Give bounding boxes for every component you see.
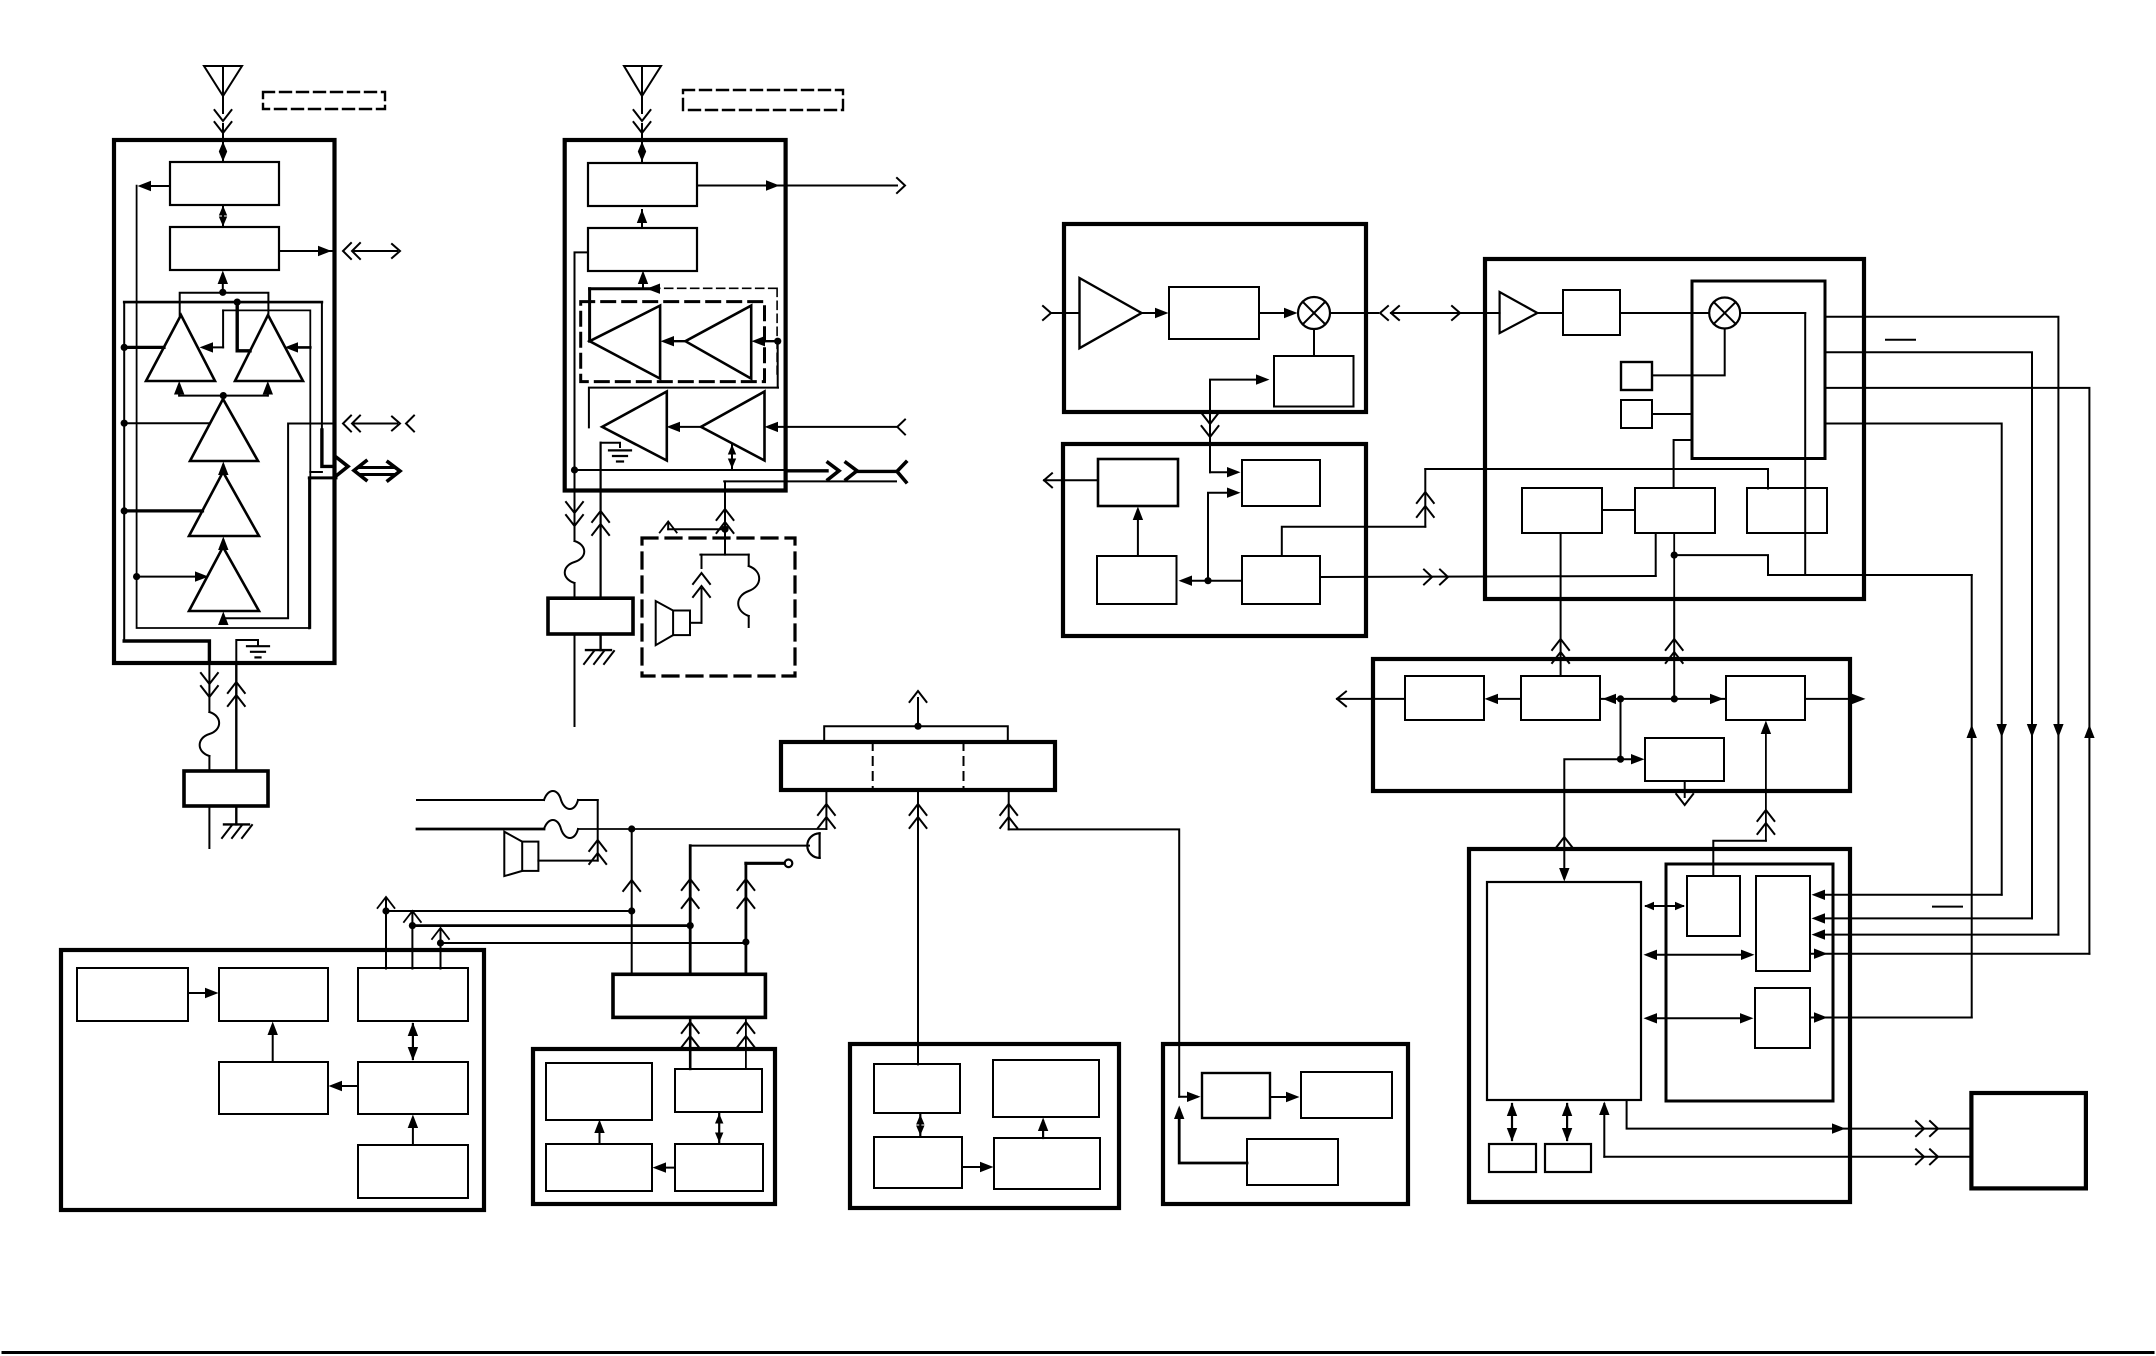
arrow N3 to N4	[962, 1162, 994, 1172]
bidirectional arrow antenna to filter	[219, 142, 227, 162]
block D2c	[1521, 676, 1600, 720]
amplifier Q5	[189, 547, 259, 611]
arrows into L2 from bus	[1812, 890, 2059, 940]
board riser 3 to control box	[1000, 790, 1179, 1097]
dashed speaker enclosure	[642, 538, 795, 676]
bus arrow V5 up	[2084, 725, 2094, 739]
detector out 2	[1825, 352, 2032, 918]
board riser 1	[818, 790, 835, 829]
D4c ground stub	[1676, 781, 1693, 805]
block G1	[1563, 290, 1620, 335]
amplifier U1	[1080, 278, 1142, 348]
block O1	[1202, 1073, 1270, 1118]
stub connector left of node	[660, 522, 725, 533]
block M4	[675, 1144, 763, 1191]
arrow R6 to R5	[408, 1115, 418, 1146]
display unit box	[61, 950, 484, 1210]
ground symbol in RF unit	[236, 640, 269, 661]
bus tap to Q1	[121, 344, 164, 351]
crystal block X1	[1621, 362, 1652, 390]
arrow M4 to M3	[653, 1162, 676, 1172]
modulation unit box	[1063, 444, 1366, 636]
wire J1i to J2i	[1602, 509, 1635, 511]
block R1	[77, 968, 188, 1021]
antenna matching box (second)	[548, 598, 633, 634]
block M2	[675, 1069, 762, 1112]
speaker SP2	[504, 832, 538, 876]
control line 4	[441, 942, 746, 944]
wire Q5 drive from connector J2	[223, 424, 334, 619]
arrow L3 out to bus V1	[1810, 1012, 1972, 1022]
connector J1 chevrons	[343, 243, 400, 259]
option unit box	[1971, 1093, 2085, 1188]
wire mixer out to IF unit	[1330, 306, 1500, 320]
antenna ANT1	[204, 66, 242, 113]
block C1m	[1098, 459, 1178, 506]
feed wire into F1	[1202, 374, 1270, 477]
tick mark 2	[1933, 906, 1962, 908]
block N1	[874, 1064, 960, 1113]
data line to option box upper	[1627, 1100, 1972, 1136]
block M3	[546, 1144, 652, 1191]
amplifier Q2	[235, 315, 303, 381]
block D1c	[1405, 676, 1484, 720]
speaker branch riser	[717, 481, 734, 533]
arrow D2 to D1	[661, 336, 686, 346]
arrow R4 to R2	[268, 1022, 278, 1063]
jack riser A	[682, 846, 699, 975]
connector chevrons on ANT2 feed	[634, 110, 651, 140]
wire mixer to osc block	[1313, 329, 1315, 356]
antenna feed below second unit	[565, 470, 585, 598]
block M1	[546, 1063, 652, 1120]
speaker SP1	[656, 601, 690, 645]
block N4	[994, 1138, 1100, 1189]
block O3	[1247, 1139, 1338, 1185]
control line thick	[412, 924, 690, 927]
block R2	[219, 968, 328, 1021]
bus tap to Q3	[121, 420, 210, 427]
antenna feed line below RF unit	[200, 663, 220, 771]
jack board riser down B	[737, 1017, 754, 1069]
bus arrow V4 down	[2053, 724, 2063, 738]
audio line to speaker unit	[724, 480, 896, 482]
arrow bus into O1	[1179, 1092, 1200, 1102]
coax connector second unit	[786, 462, 906, 482]
board top cap wire	[824, 691, 1008, 742]
TX IF unit box	[1064, 224, 1366, 412]
mic line 2 with cord	[417, 820, 826, 838]
block P2	[1545, 1144, 1591, 1172]
arrow up into C2	[590, 271, 660, 294]
CPU block K	[1487, 882, 1641, 1100]
board dashed dividers	[873, 742, 964, 790]
wire C4m out to main IC	[1320, 533, 1656, 585]
wire below matching box	[208, 806, 210, 848]
detector out 4	[1825, 424, 2002, 895]
speaker tee wiring	[700, 529, 748, 554]
outer dashed enclosure	[652, 288, 777, 374]
wire C4m top to control loop	[1282, 527, 1426, 556]
output wire A2 to connector J1	[279, 246, 334, 256]
block F1 (osc)	[1274, 356, 1354, 407]
arrow R5 to R4	[329, 1081, 359, 1091]
wire C4m to C3m with tap	[1179, 488, 1243, 586]
block J1i	[1522, 488, 1602, 533]
earphone jack	[690, 833, 819, 858]
block R4	[219, 1062, 328, 1114]
osc sub box L	[1666, 864, 1833, 1101]
interstage node Q3 to Q1/Q2	[174, 381, 273, 399]
board riser 2 (center)	[910, 790, 927, 1064]
ground symbol in second unit	[601, 443, 631, 462]
amplifier Q3	[190, 399, 258, 461]
bus tap to Q4	[121, 507, 203, 514]
arrow D1c out left	[1337, 692, 1405, 707]
bus arrow V2 down	[1997, 724, 2007, 738]
input connector into TX IF	[1043, 306, 1080, 320]
amplifier D2	[685, 306, 751, 379]
filter block C1	[588, 163, 697, 206]
IC riser to ctrl 1	[1552, 533, 1569, 676]
control line 3	[386, 910, 632, 912]
arrow A1 to left bus	[138, 181, 171, 191]
reference unit box	[1163, 1044, 1408, 1204]
PLL unit box	[850, 1044, 1119, 1208]
squelch return bus	[1971, 575, 1973, 1018]
arrow N4 to N2	[1038, 1118, 1048, 1139]
wire below matching box second	[574, 634, 576, 726]
drive arrow into Q1	[200, 310, 224, 352]
arrow Q4 to Q3	[218, 462, 228, 476]
block E1	[1169, 287, 1259, 339]
arrow up C2 to C1	[637, 210, 647, 229]
inner frame second unit	[589, 388, 778, 428]
speaker SP2 wire	[538, 840, 606, 864]
node feed into D2	[752, 336, 782, 388]
tick mark 1	[1886, 339, 1915, 341]
jack riser B	[737, 863, 754, 974]
node below J2i	[1671, 533, 1768, 599]
block D4c	[1645, 738, 1724, 781]
detector sub box	[1692, 281, 1825, 459]
thick elbow to D1 tip	[588, 289, 591, 342]
feedback loop to PA apexes	[180, 293, 269, 316]
connector chevrons on ANT1 feed	[215, 110, 232, 140]
filter block A1	[170, 162, 279, 205]
audio riser from mic line	[623, 829, 640, 974]
detector out 1	[1825, 317, 2058, 935]
output wire C1 to right	[697, 178, 905, 193]
control unit box	[1373, 659, 1850, 791]
wire X1 to detector	[1652, 329, 1725, 376]
chassis ground (left)	[222, 806, 252, 838]
RF unit box (left outer)	[114, 140, 335, 663]
output connector left of mod unit	[1044, 473, 1098, 487]
jack board box	[613, 974, 765, 1017]
drive arrow into Q2	[285, 342, 311, 352]
block P1	[1489, 1144, 1536, 1172]
bidirectional arrow ANT2 to C1	[638, 142, 646, 162]
block L2	[1756, 876, 1810, 971]
bidirectional arrow N1-N3	[916, 1115, 924, 1136]
connector J2 chevrons	[343, 416, 414, 432]
block C2m	[1242, 460, 1320, 506]
TX bus wire	[571, 466, 786, 473]
wire up into K bottom	[1599, 1102, 1609, 1157]
arrow D3c out right	[1805, 694, 1866, 704]
block N2	[993, 1060, 1099, 1117]
IC riser to ctrl 2	[1666, 599, 1683, 699]
speaker SP1 wire with connector	[690, 555, 710, 623]
bidirectional arrow A1-A2	[219, 206, 227, 227]
detector out 3	[1825, 388, 2089, 954]
ground return line below RF unit	[228, 663, 245, 771]
mixer MX1	[1298, 297, 1330, 329]
bidirectional arrow K-P2	[1562, 1103, 1572, 1142]
bus tap arrow to Q5	[133, 571, 209, 581]
block C4m	[1242, 556, 1320, 604]
mic jack	[746, 860, 792, 868]
tap wire into D4c	[1617, 699, 1645, 765]
bidirectional arrow D4 to bus	[728, 445, 736, 469]
block R3	[358, 968, 468, 1021]
inner dashed enclosure	[581, 302, 765, 382]
feedback O3 to node	[1174, 1106, 1247, 1164]
bidirectional arrow K-L1	[1644, 902, 1685, 910]
block N3	[874, 1137, 962, 1188]
control riser V3	[432, 928, 449, 969]
dashed label box (left)	[263, 92, 385, 109]
pickup coil in speaker box	[738, 555, 759, 627]
ground drop to matching (second)	[592, 443, 609, 599]
amplifier D1	[590, 306, 661, 379]
RF unit feed elbow	[124, 641, 209, 663]
amplifier D3	[602, 392, 667, 461]
arrow L2 out to bus V5	[1810, 949, 2089, 959]
jack board riser down A	[682, 1017, 699, 1069]
block R5	[358, 1062, 468, 1114]
block C3m	[1097, 556, 1177, 604]
feed into D3c from osc L1	[1713, 721, 1774, 876]
antenna matching box (left)	[184, 771, 268, 806]
bottom rule	[3, 1351, 2153, 1354]
amplifier Q4	[189, 472, 259, 536]
arrow D2c to D1c	[1485, 694, 1522, 704]
antenna ANT2	[624, 66, 661, 113]
block L3	[1755, 988, 1810, 1048]
amplifier D4	[701, 392, 765, 461]
crystal block X2	[1621, 400, 1652, 428]
bus arrow V1 up	[1967, 725, 1977, 739]
arrow D4 to D3	[667, 422, 702, 432]
wire X2 to detector	[1652, 413, 1692, 415]
supply bus line in RF unit	[124, 299, 322, 351]
block J2i	[1635, 488, 1715, 533]
coax connector J3	[309, 430, 400, 628]
bus arrow V3 down	[2027, 724, 2037, 738]
arrow up into A2	[218, 271, 228, 296]
bidirectional arrow R3-R5	[408, 1023, 418, 1061]
arrow C3m to C1m	[1133, 507, 1143, 557]
second RF unit box	[565, 140, 786, 491]
long connector board box	[781, 742, 1055, 790]
mixer MX2 output drop	[1740, 313, 1805, 575]
main IF IC box	[1485, 259, 1864, 599]
wire J2i top to detector	[1674, 440, 1692, 488]
control riser V1	[378, 897, 395, 969]
arrow M3 to M1	[594, 1120, 604, 1145]
inner frame B	[137, 186, 311, 628]
block R6	[358, 1145, 468, 1198]
input wire into D4	[765, 420, 906, 435]
amplifier Q1	[146, 315, 215, 381]
logic unit box	[1469, 849, 1850, 1202]
drive arrow into Q5 base	[218, 612, 228, 626]
connector riser to J3 feed	[1417, 469, 1768, 527]
filter block C2	[588, 228, 697, 271]
bidirectional arrow K-L2	[1644, 950, 1755, 960]
mixer MX2	[1709, 298, 1740, 329]
bus wire D2c to D3c	[1600, 694, 1726, 704]
arrow E1 to mixer	[1259, 308, 1298, 318]
block L1	[1687, 876, 1740, 936]
elbow C2 to TX bus	[575, 252, 589, 470]
arrow U1 to E1	[1142, 308, 1169, 318]
bidirectional arrow M2-M4	[715, 1114, 723, 1143]
wire down to EEPROM K	[1556, 759, 1621, 881]
audio unit box	[533, 1049, 775, 1204]
block D3c	[1726, 676, 1805, 720]
dashed label box (second)	[683, 90, 843, 110]
chassis ground (second)	[584, 634, 614, 664]
control riser V2	[404, 911, 421, 969]
squelch out wire right segment	[1768, 574, 1972, 576]
data line to option box lower	[1604, 1149, 1971, 1164]
block O2	[1301, 1072, 1392, 1118]
mic line 1 with cord	[417, 791, 598, 861]
wire G1 to mixer MX2	[1537, 312, 1709, 314]
bidirectional arrow K-P1	[1507, 1103, 1517, 1142]
arrow R1 to R2	[188, 988, 219, 998]
filter block A2	[170, 227, 279, 270]
arrow Q5 to Q4	[218, 537, 228, 551]
arrow O1 to O2	[1270, 1092, 1300, 1102]
bidirectional arrow K-L3	[1644, 1013, 1754, 1023]
block J3i	[1747, 488, 1827, 533]
inner frame A	[124, 302, 322, 641]
amplifier U2	[1500, 292, 1538, 333]
